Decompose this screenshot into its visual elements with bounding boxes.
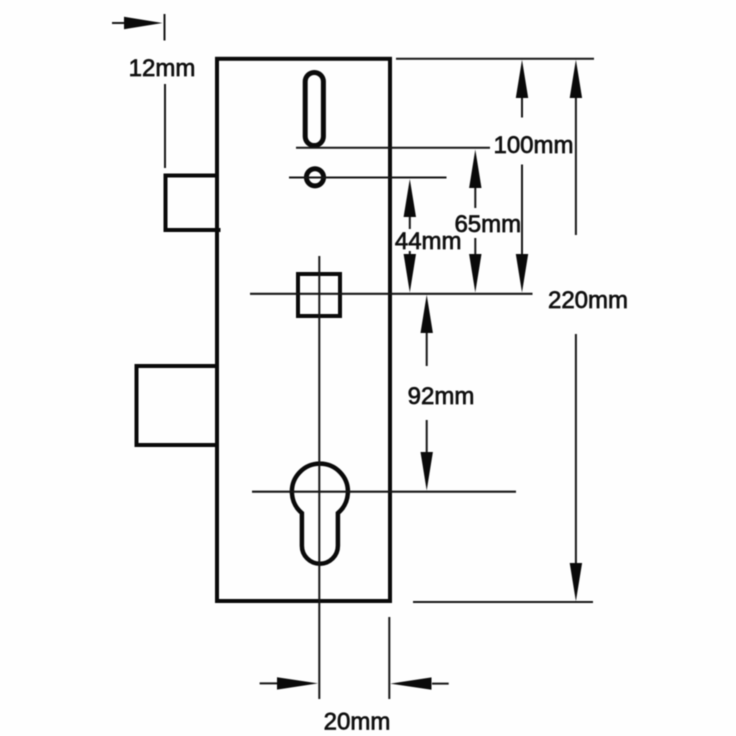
bottom extension line: [413, 601, 593, 603]
svg-text:220mm: 220mm: [548, 287, 628, 314]
220mm dimension line: [575, 98, 577, 235]
svg-text:20mm: 20mm: [324, 709, 391, 736]
svg-text:65mm: 65mm: [454, 211, 521, 238]
20mm left arrowhead: [277, 677, 318, 689]
100mm down arrowhead: [516, 254, 528, 293]
slot extension line: [296, 147, 490, 149]
65mm dimension line: [474, 188, 476, 208]
92mm up arrowhead: [421, 295, 433, 333]
12mm tick line: [164, 14, 166, 41]
screw hole center line: [289, 177, 447, 179]
12mm extension line down to latch: [164, 84, 166, 168]
top extension line: [396, 58, 594, 60]
100mm up arrowhead: [516, 60, 528, 98]
deadbolt box: [137, 366, 218, 445]
220mm up arrowhead: [570, 60, 582, 98]
spindle center line: [250, 293, 533, 295]
svg-text:44mm: 44mm: [395, 228, 462, 255]
slot hole (oblong): [305, 73, 323, 146]
euro cylinder hole: [292, 464, 348, 564]
65mm down arrowhead: [469, 254, 481, 293]
20mm right arrow line: [432, 683, 449, 685]
20mm right arrowhead: [390, 677, 431, 689]
lock case body: [217, 59, 390, 601]
65mm up arrowhead: [469, 150, 481, 189]
right edge lower extension line: [388, 617, 390, 699]
92mm dimension line: [426, 333, 428, 366]
12mm arrowhead: [124, 17, 163, 29]
svg-text:12mm: 12mm: [129, 55, 196, 82]
44mm down arrowhead: [404, 254, 416, 293]
latch bolt box: [166, 176, 221, 231]
screw hole circle: [306, 169, 323, 186]
44mm dimension line: [409, 217, 411, 229]
svg-text:92mm: 92mm: [408, 383, 475, 410]
vertical center line through square and cylinder: [318, 256, 320, 699]
svg-text:100mm: 100mm: [493, 132, 573, 159]
spindle square: [298, 274, 340, 316]
92mm down arrowhead: [421, 452, 433, 491]
220mm down arrowhead: [570, 563, 582, 601]
44mm up arrowhead: [404, 179, 416, 217]
20mm left arrow line: [260, 682, 278, 684]
cylinder center line: [252, 491, 516, 493]
100mm dimension line: [521, 98, 523, 118]
12mm arrow line: [112, 22, 130, 24]
